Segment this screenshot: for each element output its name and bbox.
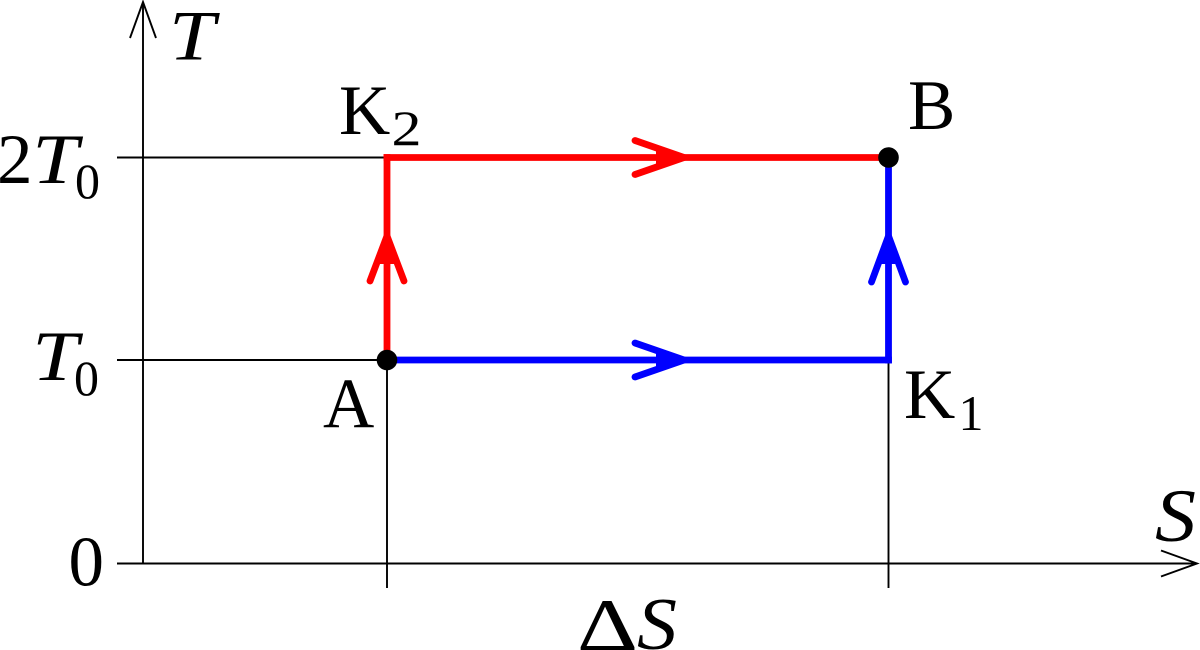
point A dot <box>377 350 398 371</box>
red path K2 to B (horizontal) <box>384 154 889 161</box>
dropline from K1 to below S axis <box>888 358 890 588</box>
x-axis arrowhead <box>1161 551 1197 577</box>
y-axis (T axis) line <box>142 4 144 564</box>
dropline from A to below S axis <box>386 360 388 588</box>
svg-text:2: 2 <box>392 100 422 156</box>
svg-text:1: 1 <box>959 385 984 441</box>
svg-text:A: A <box>323 365 374 443</box>
svg-text:K: K <box>904 356 955 434</box>
red mid arrow right on K2-B <box>635 141 685 175</box>
blue path A to K1 (horizontal) <box>387 357 892 364</box>
svg-text:2: 2 <box>0 121 33 199</box>
svg-text:S: S <box>637 584 677 650</box>
svg-text:0: 0 <box>75 153 100 209</box>
point B dot <box>878 147 899 168</box>
red path A to K2 (vertical) <box>384 154 391 360</box>
y-axis arrowhead <box>130 2 156 38</box>
x-axis (S axis) line <box>117 563 1195 565</box>
blue path K1 to B (vertical) <box>885 158 892 364</box>
blue mid arrow right on A-K1 <box>635 343 685 377</box>
svg-text:S: S <box>1155 475 1196 558</box>
gridline at T0 level <box>117 359 387 361</box>
blue mid arrow up on K1-B <box>872 234 906 282</box>
red mid arrow up on A-K2 <box>370 234 404 281</box>
gridline at 2T0 level <box>117 157 387 159</box>
svg-text:B: B <box>908 67 955 145</box>
svg-text:T: T <box>169 0 220 76</box>
svg-text:0: 0 <box>74 350 99 406</box>
svg-text:0: 0 <box>69 524 105 602</box>
svg-text:K: K <box>339 72 390 150</box>
svg-text:Δ: Δ <box>577 585 638 650</box>
